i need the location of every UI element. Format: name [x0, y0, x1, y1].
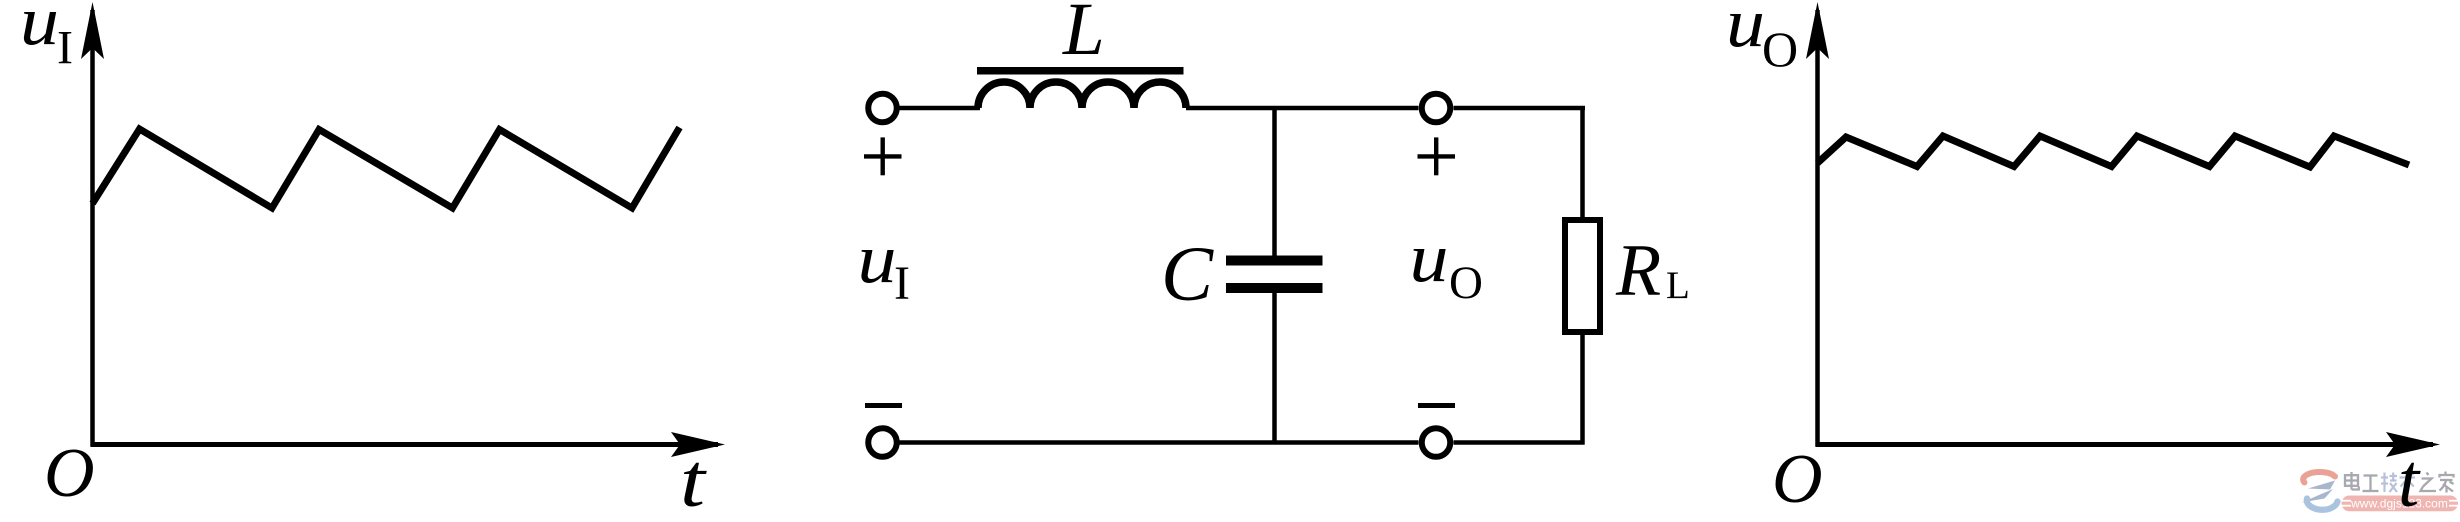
svg-text:I: I — [894, 257, 910, 310]
svg-text:C: C — [1161, 230, 1214, 317]
watermark logo blue lightning Z — [2308, 481, 2335, 490]
svg-text:t: t — [2398, 439, 2421, 522]
svg-text:O: O — [44, 435, 95, 512]
load branch wire lower — [1580, 332, 1585, 445]
terminal circle: input + — [868, 94, 897, 123]
left graph x-axis arrowhead — [671, 432, 725, 457]
wire: top middle (inductor to output terminal) — [1186, 106, 1419, 111]
wire: bottom right — [1454, 440, 1585, 445]
right graph x-axis arrowhead — [2386, 432, 2440, 457]
svg-text:u: u — [858, 221, 897, 298]
left graph y-axis — [90, 10, 95, 447]
left graph x-axis — [91, 442, 719, 447]
watermark logo light blue bottom arc — [2307, 499, 2338, 510]
terminal circle: input - — [868, 428, 897, 457]
resistor R_L body — [1565, 220, 1600, 332]
watermark text 家 — [2440, 472, 2454, 493]
watermark red url band — [2342, 496, 2459, 512]
wire: top right (output terminal to load branch) — [1454, 106, 1586, 111]
minus sign (input) — [865, 403, 902, 408]
svg-text:L: L — [1062, 0, 1105, 71]
terminal circle: output + — [1422, 94, 1451, 123]
svg-text:u: u — [1410, 220, 1449, 297]
svg-text:t: t — [680, 439, 707, 522]
terminal circle: output - — [1422, 428, 1451, 457]
svg-text:u: u — [1726, 0, 1765, 62]
plus sign (output) — [1418, 154, 1456, 158]
capacitor C top plate — [1226, 256, 1323, 266]
svg-text:L: L — [1666, 264, 1690, 307]
svg-text:I: I — [57, 22, 73, 75]
load branch wire upper — [1580, 106, 1585, 220]
watermark text 工 — [2363, 476, 2379, 492]
minus sign (output) — [1418, 403, 1455, 408]
watermark logo red top arc — [2303, 472, 2335, 483]
watermark text 技 — [2381, 473, 2397, 493]
svg-text:O: O — [1772, 441, 1823, 518]
plus sign (input) — [864, 154, 902, 158]
capacitor C bottom lead — [1272, 293, 1277, 444]
wire: input top — [897, 106, 980, 111]
right graph x-axis — [1816, 442, 2434, 447]
svg-text:R: R — [1615, 230, 1661, 312]
wire: bottom left — [897, 440, 1419, 445]
right graph waveform (output ripple u_O) — [1818, 136, 2410, 167]
svg-text:O: O — [1449, 257, 1483, 309]
right graph y-axis arrowhead — [1806, 2, 1829, 59]
watermark text 之 — [2421, 473, 2437, 492]
svg-text:O: O — [1762, 21, 1798, 77]
capacitor C bottom plate — [1226, 283, 1323, 293]
capacitor C top lead — [1272, 106, 1277, 256]
left graph y-axis arrowhead — [81, 2, 104, 59]
watermark text 术 — [2400, 472, 2416, 493]
inductor L bar — [977, 67, 1184, 75]
left graph waveform (input ripple u_I) — [93, 128, 680, 209]
watermark text 电 — [2345, 472, 2359, 490]
right graph y-axis — [1815, 10, 1820, 447]
svg-text:u: u — [20, 0, 59, 60]
inductor L coil — [978, 82, 1186, 108]
